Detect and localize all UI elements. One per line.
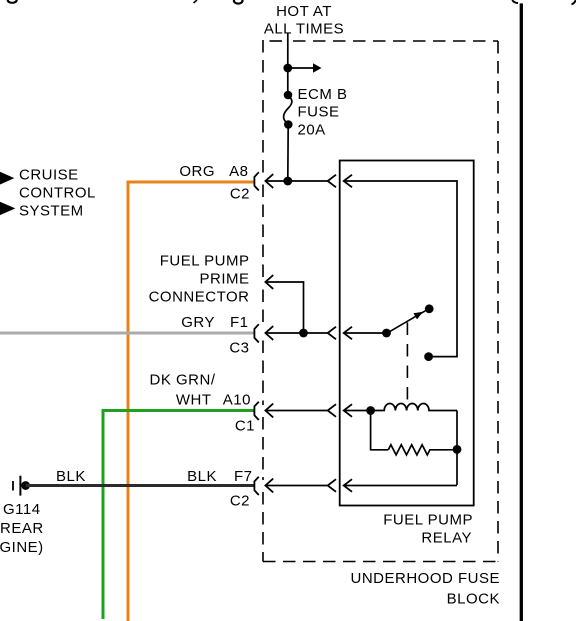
- connector F1 male pin: [265, 326, 273, 340]
- wire feed node to relay terminal: [288, 180, 328, 182]
- label BLK left: [56, 468, 253, 510]
- wire BLK black: [26, 484, 254, 487]
- underhood fuse block dashed box: left edge segments with gaps at connector rows: [262, 40, 264, 562]
- connector F1 female: [254, 324, 258, 342]
- svg-text:F7: F7: [234, 468, 253, 485]
- svg-text:FUEL PUMP: FUEL PUMP: [160, 253, 250, 270]
- dashed linkage switch to coil: [406, 323, 408, 402]
- wire terminal F7 to resistor node: [344, 485, 457, 487]
- wire DK GRN/WHT green: [103, 411, 254, 620]
- svg-text:BLK: BLK: [187, 468, 217, 485]
- wire: arrow tap to other circuits: [288, 67, 313, 69]
- svg-text:HOT AT: HOT AT: [276, 3, 332, 20]
- title remnant g descender mid: [234, 0, 243, 4]
- svg-text:DK GRN/: DK GRN/: [149, 372, 215, 389]
- svg-text:F1: F1: [230, 314, 249, 331]
- svg-text:RELAY: RELAY: [421, 530, 472, 547]
- label UNDERHOOD FUSE BLOCK: [350, 570, 500, 608]
- svg-text:UNDERHOOD FUSE: UNDERHOOD FUSE: [350, 570, 500, 587]
- svg-text:ECM B: ECM B: [298, 86, 348, 103]
- svg-text:C1: C1: [235, 418, 255, 435]
- svg-text:C3: C3: [229, 340, 249, 357]
- svg-text:G114: G114: [3, 501, 41, 518]
- wire inside relay: feed to fixed contact: [344, 181, 457, 357]
- title remnant g descender left: [8, 0, 17, 3]
- fuel pump relay box: [340, 161, 474, 506]
- svg-text:PRIME: PRIME: [199, 271, 249, 288]
- label ORG A8 / C2: [179, 163, 250, 203]
- connector F7 female: [254, 477, 258, 495]
- relay terminal arrow inside (row 3): [344, 404, 352, 417]
- label FUEL PUMP RELAY: [383, 512, 473, 547]
- fuse ECM B 20A: [284, 91, 293, 100]
- svg-text:C2: C2: [230, 493, 250, 510]
- svg-text:CONNECTOR: CONNECTOR: [149, 289, 250, 306]
- svg-text:20A: 20A: [298, 122, 326, 139]
- node coil left: [366, 406, 375, 415]
- wire pin A8 to feed node: [265, 180, 287, 182]
- node switch pivot: [382, 329, 391, 338]
- connector fuel pump prime male pin: [265, 275, 273, 289]
- node: feed junction with arrow tap: [283, 64, 292, 73]
- connector A8 female: [254, 172, 258, 190]
- wire prime connector to F1 node: [265, 282, 303, 333]
- svg-text:ORG: ORG: [179, 163, 215, 180]
- svg-text:REAR: REAR: [0, 520, 44, 537]
- relay terminal arrow outside (row 4): [328, 479, 336, 492]
- title remnant comma: [194, 0, 198, 3]
- connector F7 male pin: [265, 479, 273, 493]
- wire coil right down: [456, 411, 458, 486]
- connector A10 female: [254, 402, 258, 420]
- node fixed contact upper: [425, 304, 434, 313]
- label GRY F1 / C3: [181, 314, 249, 357]
- underhood fuse block dashed box: bottom edge: [263, 561, 498, 563]
- svg-text:FUEL PUMP: FUEL PUMP: [383, 512, 473, 529]
- svg-text:GRY: GRY: [181, 314, 215, 331]
- label ECM B FUSE 20A: [298, 86, 348, 139]
- page divider thick vertical line: [520, 3, 523, 621]
- relay terminal arrow outside (row 3): [328, 404, 336, 417]
- wire relay terminal to pivot (row F1): [344, 332, 387, 334]
- underhood fuse block dashed box: top edge: [270, 40, 283, 42]
- wire ORG orange: [128, 182, 254, 621]
- title remnant paren right: [572, 0, 576, 4]
- label HOT AT ALL TIMES: [264, 3, 344, 37]
- label FUEL PUMP PRIME CONNECTOR: [149, 253, 250, 306]
- connector A8 male pin: [265, 174, 273, 188]
- svg-text:SYSTEM: SYSTEM: [19, 203, 84, 220]
- underhood fuse block dashed box: right edge: [497, 41, 499, 562]
- svg-text:FUSE: FUSE: [298, 104, 340, 121]
- svg-text:ALL TIMES: ALL TIMES: [264, 20, 344, 37]
- svg-text:BLK: BLK: [56, 468, 86, 485]
- wire pin F7 to relay: [265, 485, 327, 487]
- relay terminal arrow outside (row 1): [328, 175, 336, 188]
- label CRUISE CONTROL SYSTEM: [19, 167, 96, 220]
- svg-text:CONTROL: CONTROL: [19, 185, 96, 202]
- relay terminal arrow inside (row 2): [344, 327, 352, 340]
- wire pin F1 to node: [265, 332, 327, 334]
- wire GRY gray: [0, 332, 254, 335]
- relay terminal arrow inside (row 1): [344, 175, 352, 188]
- svg-text:BLOCK: BLOCK: [447, 591, 500, 608]
- node fixed contact lower: [424, 352, 433, 361]
- svg-text:A10: A10: [223, 392, 251, 409]
- wire coil node down to resistor: [371, 411, 389, 450]
- svg-text:CRUISE: CRUISE: [19, 167, 79, 184]
- relay terminal arrow outside (row 2): [328, 327, 336, 340]
- wire terminal to coil node: [344, 410, 371, 412]
- node F1 prime junction: [299, 329, 308, 338]
- label G114 (REAR ENGINE): [0, 501, 44, 556]
- relay terminal arrow inside (row 4): [344, 479, 352, 492]
- cruise control arrows: [0, 171, 14, 185]
- node resistor right junction: [453, 445, 462, 454]
- switch blade with arrow: [387, 311, 426, 334]
- svg-text:GINE): GINE): [0, 539, 44, 556]
- label DK GRN/ WHT A10 / C1: [149, 372, 255, 435]
- ground G114: [19, 476, 21, 496]
- connector A10 male pin: [265, 404, 273, 418]
- node A8 feed junction: [283, 177, 292, 186]
- relay resistor R1: [388, 445, 452, 455]
- svg-text:A8: A8: [229, 163, 248, 180]
- title remnant paren left: [512, 0, 518, 3]
- relay coil L1: [371, 403, 457, 410]
- svg-text:C2: C2: [230, 186, 250, 203]
- wire: battery feed vertical into fuse: [287, 33, 289, 95]
- svg-text:WHT: WHT: [176, 392, 212, 409]
- wire pin A10 to relay: [265, 410, 327, 412]
